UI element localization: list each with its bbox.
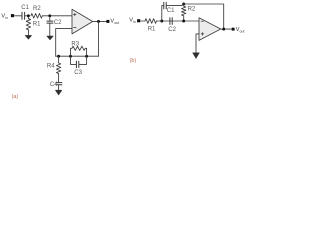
svg-text:C1: C1 (167, 8, 175, 14)
capacitor C2 (b) (170, 18, 172, 25)
feedback wire top (b) (184, 4, 224, 29)
terminal Vout (a) (106, 20, 109, 23)
output wire (a) (93, 20, 107, 22)
wire R2 to op-amp (a) (42, 15, 72, 17)
ground below op-amp (b) (193, 53, 200, 59)
capacitor C4 (a) (56, 83, 62, 85)
label Vout (b) (236, 27, 245, 33)
wire Vin to R1 (b) (140, 20, 145, 22)
svg-text:out: out (240, 30, 245, 34)
svg-text:R1: R1 (33, 21, 41, 27)
plus input pin mark (b) (201, 33, 204, 36)
wire R1 to ground (a) (27, 30, 29, 36)
svg-text:C4: C4 (50, 82, 58, 88)
terminal Vout (b) (232, 28, 235, 31)
feedback wire vertical from output (a) (98, 21, 100, 56)
svg-text:R1: R1 (148, 27, 156, 33)
svg-text:R3: R3 (71, 41, 79, 47)
ground below R1 (a) (25, 35, 31, 39)
wire R4 to C4 (a) (58, 74, 60, 83)
resistor R1 (b) (145, 19, 157, 24)
plus input pin mark (a) (74, 13, 77, 16)
label Vin (b) (129, 17, 136, 23)
ground below C4 (a) (55, 90, 61, 95)
non-inverting input wire (b) (196, 34, 199, 53)
svg-text:out: out (114, 21, 119, 25)
node R3C3 left junction (a) (69, 55, 72, 58)
op-amp U2 (b) (199, 18, 221, 41)
svg-text:in: in (5, 16, 8, 20)
svg-text:(a): (a) (12, 94, 19, 100)
output node junction (a) (97, 20, 100, 23)
node R3C3 right junction (a) (85, 55, 88, 58)
inverting input wire (a) (56, 29, 72, 57)
wire C2 to ground (a) (49, 23, 51, 36)
node A junction (b) (160, 20, 163, 23)
wire C1 to node A (a) (25, 15, 28, 17)
resistor R4 (a) (56, 56, 60, 73)
node B junction (a) (48, 14, 51, 17)
minus input pin mark (b) (201, 20, 204, 22)
wire R1 to op-amp (b) (157, 20, 200, 22)
capacitor C1 (a) (22, 12, 25, 19)
svg-text:(b): (b) (130, 58, 137, 64)
terminal Vin (a) (11, 14, 14, 17)
feedback wire horizontal (a) (56, 55, 99, 57)
svg-text:in: in (133, 20, 136, 24)
svg-text:R2: R2 (188, 7, 196, 13)
capacitor C2 (a) (47, 16, 53, 23)
node feedback top junction (b) (182, 3, 185, 6)
ground below C2 (a) (47, 36, 53, 40)
capacitor C3 (a) (71, 56, 87, 67)
svg-text:C3: C3 (74, 70, 82, 76)
minus input pin mark (a) (74, 27, 77, 29)
wire Vin to C1 (a) (14, 15, 22, 17)
svg-text:C2: C2 (54, 20, 62, 26)
svg-text:R4: R4 (47, 64, 55, 70)
resistor R3 (a) (71, 46, 87, 56)
svg-text:R2: R2 (33, 6, 41, 12)
svg-text:C2: C2 (168, 27, 176, 33)
node B junction (b) (182, 20, 185, 23)
capacitor C1 (b) (162, 2, 184, 21)
node A junction (a) (27, 14, 30, 17)
wire C4 to ground (a) (58, 85, 60, 90)
output wire (b) (221, 28, 232, 30)
resistor R2 (a) (31, 14, 42, 19)
label Vin (a) (1, 14, 8, 20)
resistor R2 (b) (182, 4, 186, 21)
op-amp U1 (a) (72, 9, 93, 34)
svg-text:C1: C1 (21, 5, 29, 11)
label Vout (a) (110, 18, 119, 25)
output node junction (b) (222, 28, 225, 31)
resistor R1 (a) (26, 17, 30, 30)
node R4 junction (a) (57, 55, 60, 58)
terminal Vin (b) (137, 19, 140, 22)
